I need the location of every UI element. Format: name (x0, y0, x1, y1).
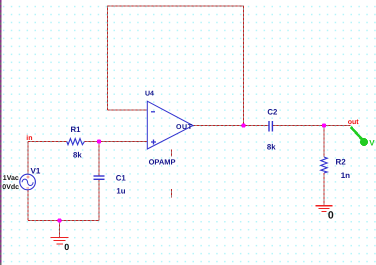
svg-text:1n: 1n (341, 171, 350, 180)
svg-text:U4: U4 (145, 91, 154, 98)
svg-text:8k: 8k (267, 143, 276, 152)
svg-text:C2: C2 (267, 108, 278, 117)
svg-text:V: V (369, 138, 375, 147)
svg-text:out: out (348, 119, 360, 126)
svg-text:0: 0 (328, 210, 334, 222)
svg-text:in: in (26, 134, 32, 142)
svg-text:OUT: OUT (176, 124, 193, 131)
svg-text:R1: R1 (71, 125, 82, 134)
svg-text:8k: 8k (73, 150, 82, 159)
svg-text:R2: R2 (336, 158, 347, 167)
svg-text:C1: C1 (116, 173, 127, 182)
svg-text:0Vdc: 0Vdc (2, 183, 19, 191)
svg-text:1Vac: 1Vac (3, 175, 19, 182)
svg-text:V1: V1 (31, 167, 41, 176)
svg-text:0: 0 (64, 242, 69, 252)
svg-text:OPAMP: OPAMP (149, 158, 176, 167)
svg-text:1u: 1u (116, 187, 125, 196)
